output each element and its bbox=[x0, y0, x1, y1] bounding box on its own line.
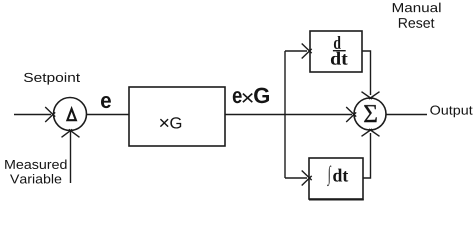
fraction denominator dt bbox=[331, 52, 348, 65]
wire derivative output bbox=[362, 51, 371, 95]
arrowhead into summer U3 left bbox=[346, 107, 356, 117]
label e×G bbox=[233, 88, 269, 104]
label Manual bbox=[393, 3, 441, 13]
label ×G gain bbox=[160, 117, 181, 128]
label Output bbox=[430, 106, 472, 118]
wire output bbox=[386, 114, 427, 116]
wire integral output bbox=[363, 133, 371, 178]
wire measured variable bbox=[70, 130, 72, 183]
wire to derivative block bbox=[285, 50, 307, 52]
fraction numerator d bbox=[334, 36, 341, 49]
label e (error signal) bbox=[101, 96, 111, 108]
integral block U5 box bbox=[309, 158, 363, 199]
summing junction U1 circle bbox=[54, 98, 87, 131]
wire e×G output of gain bbox=[225, 114, 352, 116]
label Measured bbox=[5, 159, 66, 169]
label Variable bbox=[10, 174, 61, 184]
node branch vertical bbox=[284, 51, 286, 178]
symbol Σ in summer bbox=[364, 105, 377, 122]
arrowhead into derivative block bbox=[302, 44, 312, 54]
wire to integral block bbox=[285, 177, 307, 179]
arrowhead into integral block bbox=[302, 171, 312, 181]
summer U3 circle bbox=[354, 98, 386, 130]
arrowhead into summing junction U1 bbox=[45, 107, 55, 117]
integral sign bbox=[327, 166, 331, 187]
fraction bar of d/dt bbox=[333, 50, 346, 52]
label dt of integral bbox=[333, 169, 348, 182]
integral block bottom shadow edge bbox=[309, 199, 364, 201]
symbol Δ in summing junction bbox=[67, 109, 76, 120]
derivative block U4 box bbox=[310, 31, 362, 72]
label Reset bbox=[399, 18, 435, 28]
arrowhead into summer U3 top bbox=[362, 92, 373, 99]
gain block U2 box bbox=[129, 87, 225, 146]
wire e (error) bbox=[87, 114, 130, 116]
arrowhead measured variable into U1 bbox=[62, 129, 73, 137]
arrowhead into summer U3 bottom bbox=[362, 129, 373, 136]
wire setpoint input bbox=[14, 114, 51, 116]
label Setpoint bbox=[24, 72, 80, 84]
